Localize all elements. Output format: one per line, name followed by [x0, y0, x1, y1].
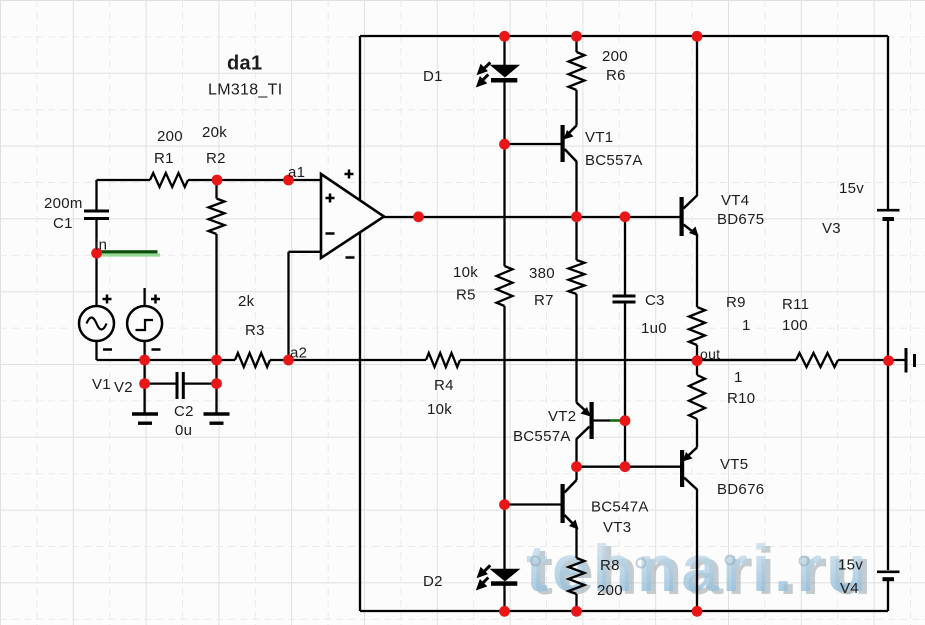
junction C3-top [620, 211, 631, 222]
wire C3 column bottom [624, 304, 626, 467]
V1 minus sign [103, 348, 112, 351]
source V1 (sine) [79, 306, 114, 341]
op-amp inner minus [326, 232, 335, 235]
svg-text:10k: 10k [453, 264, 478, 281]
wire right edge upper (to V3) [887, 36, 889, 209]
svg-text:BC547A: BC547A [591, 499, 649, 516]
ground (right, sideways) [906, 348, 915, 373]
node R2-top [212, 175, 223, 186]
svg-text:V1: V1 [92, 376, 111, 393]
svg-text:R3: R3 [245, 322, 265, 339]
wire D1 column [503, 36, 505, 266]
svg-text:R6: R6 [606, 67, 626, 84]
wire R2 column ground [215, 360, 217, 413]
wire R5 to D2 [503, 306, 505, 570]
transistor VT2 (PNP BC557A) [577, 402, 626, 439]
svg-text:C1: C1 [53, 215, 73, 232]
svg-text:R5: R5 [456, 287, 476, 304]
junction right-mid [883, 355, 894, 366]
wire VT4 collector top [696, 36, 698, 196]
resistor R10 [689, 360, 705, 448]
junction VT5-base [620, 461, 631, 472]
svg-text:BC557A: BC557A [585, 152, 643, 169]
svg-text:LM318_TI: LM318_TI [208, 82, 282, 99]
ground (R2 column) [204, 414, 230, 423]
svg-text:C2: C2 [174, 403, 194, 420]
node opamp-out [413, 211, 424, 222]
wire VT2 collector down [575, 439, 577, 481]
source V2 (step) [127, 306, 162, 341]
junction R6-rail [571, 31, 582, 42]
svg-text:VT5: VT5 [720, 456, 748, 473]
svg-text:V3: V3 [822, 220, 841, 237]
wire main bottom horizontal (V1 to right rail) [97, 341, 889, 360]
svg-text:15v: 15v [839, 180, 864, 197]
junction C2-right [211, 378, 222, 389]
resistor R2 [209, 180, 225, 360]
wire left edge (op-amp supply) [359, 36, 361, 611]
resistor R3 [235, 353, 270, 367]
wire VT2/VT3 emitter junction row [577, 466, 626, 468]
V2 minus sign [152, 348, 161, 351]
op-amp power plus label [345, 170, 354, 179]
op-amp power minus label [346, 256, 355, 259]
svg-text:200m: 200m [44, 195, 83, 212]
junction D1-rail [499, 31, 510, 42]
resistor R7 [569, 260, 585, 294]
svg-text:10k: 10k [427, 401, 452, 418]
wire C2 left [145, 382, 176, 384]
wire right ground stub [888, 359, 905, 361]
svg-text:a1: a1 [288, 164, 305, 181]
svg-text:VT2: VT2 [548, 408, 576, 425]
battery V4 [877, 572, 900, 579]
junction VT4-rail [692, 31, 703, 42]
wire C3 column top [624, 217, 626, 296]
svg-text:VT3: VT3 [603, 519, 631, 536]
wire VT1 collector down [575, 161, 577, 260]
node out [692, 355, 703, 366]
wire top +rail [360, 35, 888, 37]
wire V2 stub top [143, 288, 145, 306]
svg-text:out: out [700, 346, 720, 362]
svg-text:R9: R9 [726, 294, 746, 311]
svg-text:1: 1 [742, 317, 751, 334]
svg-text:V2: V2 [114, 379, 133, 396]
resistor R11 [796, 353, 838, 367]
wire C2 right [185, 382, 217, 384]
junction C2-left [139, 378, 150, 389]
svg-text:200: 200 [597, 582, 623, 599]
transistor VT4 (NPN BD675) [680, 196, 699, 237]
svg-text:380: 380 [529, 265, 555, 282]
capacitor C2 [176, 372, 185, 399]
node a2 [283, 355, 294, 366]
node a1 [283, 175, 294, 186]
resistor R8 [569, 527, 585, 611]
svg-text:da1: da1 [227, 53, 262, 75]
wire input top (C1 to op-amp +) [97, 179, 322, 181]
svg-text:20k: 20k [202, 124, 227, 141]
wire C1 column [95, 180, 97, 306]
junction VT5-rail [692, 606, 703, 617]
wire right edge middle [887, 221, 889, 570]
svg-text:tehnari.ru: tehnari.ru [526, 531, 870, 605]
wire out node horizontal [697, 359, 796, 361]
wire green stub at VT2 base [610, 419, 623, 421]
resistor R4 [426, 353, 460, 367]
junction R2-bot [211, 355, 222, 366]
V2 plus sign [151, 295, 160, 304]
svg-text:D1: D1 [423, 68, 443, 85]
svg-text:BD675: BD675 [717, 211, 764, 228]
wire in (green stub) [97, 250, 160, 256]
capacitor C1 [84, 210, 109, 221]
svg-text:R2: R2 [206, 150, 226, 167]
svg-text:in: in [95, 237, 107, 254]
diode D2 (LED) [476, 565, 519, 590]
V1 plus sign [103, 295, 112, 304]
capacitor C3 [613, 295, 636, 304]
svg-text:R1: R1 [154, 150, 174, 167]
svg-text:BC557A: BC557A [513, 428, 571, 445]
op-amp inner plus [326, 194, 335, 203]
wire V2 bottom to ground [143, 341, 145, 413]
svg-text:R8: R8 [600, 557, 620, 574]
svg-text:R4: R4 [434, 377, 454, 394]
transistor VT5 (PNP BD676) [625, 448, 697, 490]
transistor VT3 (NPN BC547A) [505, 480, 579, 530]
wire R7 to VT2 [575, 294, 577, 403]
svg-text:15v: 15v [838, 557, 863, 574]
svg-text:2k: 2k [238, 293, 255, 310]
battery V3 [877, 210, 900, 219]
ground (V2 column) [132, 414, 158, 423]
svg-text:R11: R11 [782, 296, 809, 313]
diode D1 (LED) [476, 62, 519, 87]
svg-text:100: 100 [782, 317, 808, 334]
svg-text:V4: V4 [840, 580, 859, 597]
wire op-amp output [384, 216, 680, 218]
wire VT5 collector to bottom rail [696, 489, 698, 611]
junction V2-bot [139, 355, 150, 366]
svg-text:C3: C3 [645, 292, 665, 309]
wire D2 to bottom rail [503, 586, 505, 612]
watermark tehnari.ru [526, 531, 875, 608]
svg-text:0u: 0u [175, 422, 192, 439]
junction VT1-base [499, 139, 510, 150]
svg-text:R7: R7 [534, 292, 554, 309]
resistor R9 [689, 234, 705, 360]
wire right edge lower [887, 581, 889, 611]
op-amp U1 triangle [321, 174, 384, 258]
svg-text:200: 200 [602, 48, 628, 65]
junction R8-rail [571, 606, 582, 617]
svg-text:1u0: 1u0 [641, 320, 667, 337]
svg-text:VT1: VT1 [585, 129, 613, 146]
wire bottom -rail [360, 610, 888, 612]
svg-text:D2: D2 [423, 573, 443, 590]
svg-text:VT4: VT4 [721, 192, 749, 209]
junction D2-rail [499, 606, 510, 617]
svg-text:R10: R10 [727, 390, 755, 407]
junction VT3-col [571, 461, 582, 472]
junction VT2-base [620, 415, 631, 426]
node in [91, 248, 102, 259]
junction VT3-base [499, 499, 510, 510]
svg-text:BD676: BD676 [717, 481, 764, 498]
wire feedback a2 to op-amp minus [289, 252, 322, 360]
resistor R1 [150, 173, 188, 187]
junction R7-top [571, 211, 582, 222]
svg-text:200: 200 [157, 128, 183, 145]
resistor R6 [569, 36, 585, 126]
svg-text:1: 1 [734, 369, 743, 386]
resistor R5 [497, 266, 513, 306]
svg-text:a2: a2 [290, 345, 307, 362]
transistor VT1 (PNP BC557A) [505, 125, 577, 162]
